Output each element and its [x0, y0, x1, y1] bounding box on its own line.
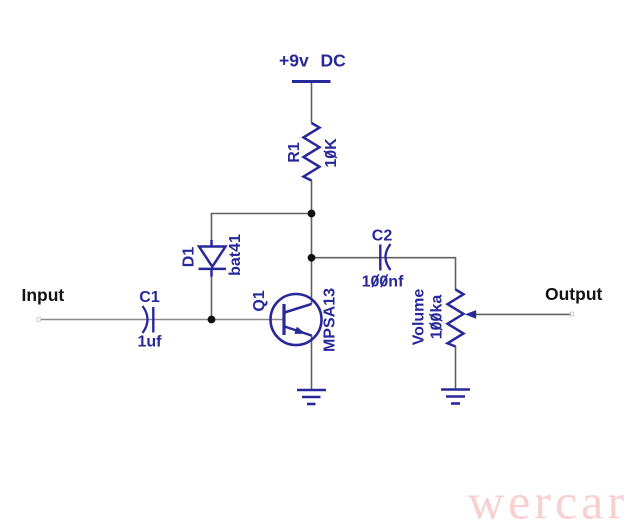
svg-text:Input: Input — [22, 285, 65, 305]
capacitor C1 1uf — [143, 306, 148, 333]
label 100nf — [362, 274, 404, 291]
svg-text:+9v: +9v — [279, 51, 309, 71]
wire collector junction through C2 to potentiometer top — [312, 258, 456, 290]
transistor Q1 MPSA13 — [271, 294, 322, 345]
wire D1 branch down to diode — [211, 213, 213, 241]
emitter arrow — [294, 327, 306, 334]
node junction dot R1/D1 — [308, 210, 316, 218]
diode D1 bat41 — [199, 240, 227, 277]
svg-text:MPSA13: MPSA13 — [322, 288, 339, 352]
ground under Q1 — [297, 390, 326, 404]
svg-text:C1: C1 — [139, 289, 160, 306]
svg-text:100ka: 100ka — [429, 295, 446, 340]
label 10K — [323, 138, 340, 168]
ground under potentiometer — [441, 390, 470, 404]
wire wiper to output terminal — [476, 313, 571, 315]
potentiometer Volume 100ka — [448, 290, 464, 347]
resistor R1 10K — [304, 123, 320, 181]
svg-text:DC: DC — [321, 51, 347, 71]
svg-text:Q1: Q1 — [251, 290, 268, 311]
label 100ka — [429, 295, 446, 340]
wire power rail to R1 — [311, 82, 313, 123]
svg-text:D1: D1 — [181, 247, 198, 268]
power rail +9v bar — [292, 80, 331, 83]
svg-text:Volume: Volume — [411, 289, 428, 346]
input terminal — [37, 318, 41, 322]
svg-text:R1: R1 — [286, 142, 303, 163]
wire input terminal through C1 to Q1 base — [41, 319, 284, 321]
wire R1 bottom to collector pin (through junctions) — [311, 180, 313, 304]
svg-text:Output: Output — [545, 284, 603, 304]
svg-text:1uf: 1uf — [138, 334, 163, 351]
svg-text:wercar: wercar — [468, 474, 628, 530]
svg-text:bat41: bat41 — [227, 234, 244, 276]
svg-text:C2: C2 — [372, 228, 393, 245]
output terminal — [570, 312, 574, 316]
node junction dot collector/C2 — [308, 254, 316, 262]
wire emitter to ground — [311, 335, 313, 390]
wire pot bottom to ground — [455, 346, 457, 389]
capacitor C2 100nf — [379, 245, 381, 271]
wire junction to D1 branch top — [211, 213, 312, 215]
wire diode cathode to input line — [211, 276, 213, 320]
wiper arrow — [465, 310, 476, 319]
node junction dot D1/input — [208, 316, 216, 324]
